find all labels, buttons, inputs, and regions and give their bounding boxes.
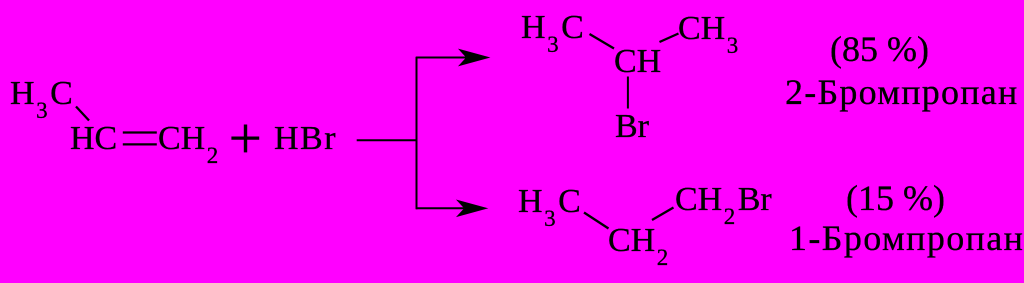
- branch vertical line: [416, 57, 418, 210]
- yield label (85 %): [830, 31, 929, 67]
- bond H3C-CH (2-bromopropane): [590, 34, 615, 49]
- product name 2-Bromopropane: [785, 74, 1019, 110]
- reactant propene HC group: [70, 122, 117, 156]
- reagent HBr: [274, 122, 337, 156]
- bond CH2-CH2Br (1-bromopropane): [652, 208, 674, 221]
- double bond C=C lower line: [123, 143, 157, 145]
- top branch arrowhead: [460, 50, 489, 66]
- plus sign vertical bar: [244, 125, 247, 153]
- top branch arrow shaft: [416, 57, 466, 59]
- bond CH-CH3 (2-bromopropane): [660, 34, 679, 43]
- bottom branch arrow shaft: [416, 207, 464, 209]
- bond H3C-HC (reactant): [76, 107, 89, 121]
- reaction arrow stem from HBr: [357, 139, 418, 141]
- yield label (15 %): [846, 180, 945, 216]
- double bond C=C upper line: [123, 131, 157, 133]
- product 1-bromopropane CH2Br group: [675, 183, 772, 217]
- reactant propene CH2 group: [158, 122, 221, 156]
- plus sign horizontal bar: [231, 137, 259, 140]
- product name 1-Bromopropane: [789, 220, 1024, 256]
- product 2-bromopropane CH3 group: [678, 12, 741, 46]
- bond H3C-CH2 (1-bromopropane): [584, 213, 609, 229]
- product 2-bromopropane CH group: [614, 45, 661, 79]
- product 1-bromopropane CH2 group: [608, 224, 671, 258]
- bond CH-Br (2-bromopropane): [627, 77, 629, 109]
- product 2-bromopropane H3C group: [521, 11, 584, 45]
- product 1-bromopropane H3C group: [518, 185, 581, 219]
- bottom branch arrowhead: [458, 200, 487, 216]
- reactant propene CH3 group: [10, 77, 73, 111]
- product 2-bromopropane Br substituent: [615, 110, 649, 144]
